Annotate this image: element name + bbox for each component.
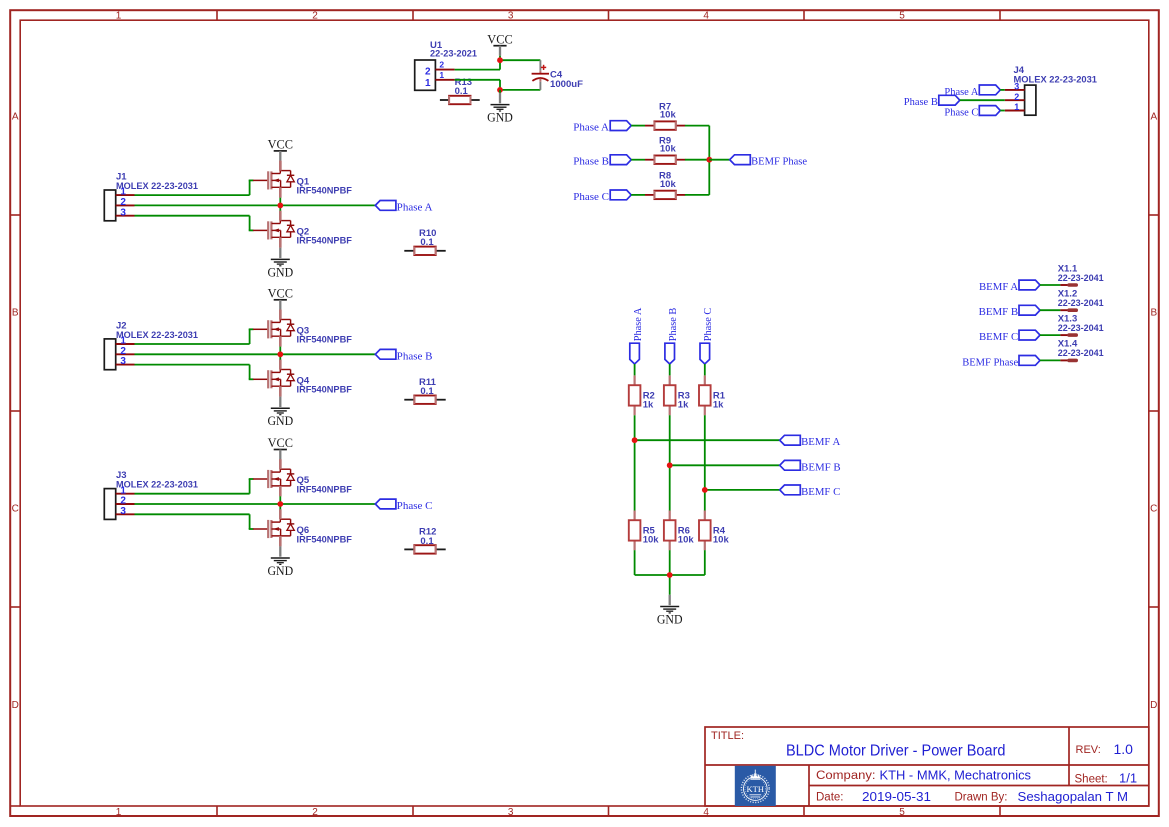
svg-text:REV:: REV:: [1076, 744, 1101, 756]
svg-text:IRF540NPBF: IRF540NPBF: [297, 335, 353, 346]
svg-text:22-23-2041: 22-23-2041: [1058, 273, 1105, 284]
svg-text:Phase C: Phase C: [944, 107, 978, 119]
svg-text:3: 3: [508, 11, 514, 22]
svg-text:IRF540NPBF: IRF540NPBF: [297, 534, 353, 545]
svg-text:BEMF C: BEMF C: [801, 486, 840, 498]
svg-text:VCC: VCC: [268, 436, 293, 450]
svg-text:IRF540NPBF: IRF540NPBF: [297, 484, 353, 495]
svg-text:10k: 10k: [713, 535, 730, 546]
svg-text:IRF540NPBF: IRF540NPBF: [297, 236, 353, 247]
svg-text:3: 3: [508, 807, 514, 818]
svg-text:BLDC Motor Driver - Power Boar: BLDC Motor Driver - Power Board: [786, 743, 1006, 760]
svg-text:10k: 10k: [643, 535, 660, 546]
svg-text:BEMF A: BEMF A: [979, 281, 1018, 293]
svg-text:10k: 10k: [660, 144, 677, 155]
svg-text:MOLEX 22-23-2031: MOLEX 22-23-2031: [116, 181, 199, 192]
svg-text:2: 2: [425, 66, 431, 77]
svg-text:BEMF Phase: BEMF Phase: [751, 156, 807, 168]
svg-text:D: D: [1150, 700, 1157, 711]
svg-text:1k: 1k: [643, 400, 654, 411]
svg-text:1: 1: [425, 78, 431, 89]
svg-text:1: 1: [1014, 102, 1019, 112]
svg-text:Company:: Company:: [816, 770, 876, 782]
svg-text:Phase B: Phase B: [397, 350, 433, 362]
svg-text:Phase A: Phase A: [573, 122, 609, 134]
svg-text:Drawn By:: Drawn By:: [955, 792, 1008, 804]
svg-text:3: 3: [120, 207, 126, 218]
svg-text:BEMF B: BEMF B: [979, 306, 1019, 318]
svg-text:VCC: VCC: [487, 32, 512, 46]
svg-text:B: B: [12, 308, 19, 319]
svg-text:5: 5: [899, 807, 905, 818]
svg-text:B: B: [1150, 308, 1157, 319]
svg-text:22-23-2041: 22-23-2041: [1058, 348, 1105, 359]
svg-text:Phase C: Phase C: [702, 308, 714, 342]
svg-text:D: D: [12, 700, 19, 711]
svg-text:4: 4: [703, 807, 709, 818]
svg-text:1: 1: [116, 11, 122, 22]
svg-text:2: 2: [439, 60, 444, 70]
svg-text:22-23-2041: 22-23-2041: [1058, 323, 1105, 334]
svg-text:IRF540NPBF: IRF540NPBF: [297, 186, 353, 197]
svg-text:4: 4: [703, 11, 709, 22]
svg-text:1k: 1k: [713, 400, 724, 411]
svg-text:BEMF B: BEMF B: [801, 461, 841, 473]
svg-text:22-23-2041: 22-23-2041: [1058, 298, 1105, 309]
svg-text:2: 2: [312, 807, 318, 818]
svg-text:MOLEX 22-23-2031: MOLEX 22-23-2031: [1014, 74, 1098, 85]
svg-text:C: C: [12, 504, 19, 515]
svg-text:GND: GND: [657, 612, 683, 626]
svg-text:22-23-2021: 22-23-2021: [430, 48, 478, 59]
svg-text:1: 1: [116, 807, 122, 818]
svg-text:5: 5: [899, 11, 905, 22]
svg-text:2019-05-31: 2019-05-31: [862, 789, 931, 804]
svg-text:Phase C: Phase C: [573, 191, 609, 203]
svg-text:Seshagopalan T M: Seshagopalan T M: [1018, 789, 1129, 804]
svg-text:1000uF: 1000uF: [550, 79, 583, 90]
svg-text:VCC: VCC: [268, 138, 293, 152]
svg-text:Phase B: Phase B: [667, 308, 679, 342]
svg-text:0.1: 0.1: [420, 237, 434, 248]
svg-text:A: A: [12, 112, 19, 123]
svg-text:1.0: 1.0: [1114, 741, 1134, 757]
svg-text:10k: 10k: [678, 535, 695, 546]
svg-text:3: 3: [1014, 82, 1019, 92]
svg-text:1/1: 1/1: [1119, 771, 1137, 786]
svg-text:Phase C: Phase C: [397, 500, 433, 512]
svg-text:MOLEX 22-23-2031: MOLEX 22-23-2031: [116, 480, 199, 491]
svg-text:Sheet:: Sheet:: [1075, 774, 1108, 786]
svg-text:Phase A: Phase A: [397, 201, 433, 213]
svg-text:GND: GND: [487, 111, 513, 125]
svg-text:KTH: KTH: [747, 784, 764, 794]
svg-text:2: 2: [312, 11, 318, 22]
svg-text:3: 3: [120, 356, 126, 367]
svg-text:GND: GND: [267, 564, 293, 578]
svg-text:TITLE:: TITLE:: [711, 730, 744, 742]
svg-text:BEMF A: BEMF A: [801, 436, 840, 448]
svg-text:VCC: VCC: [268, 286, 293, 300]
svg-text:BEMF C: BEMF C: [979, 331, 1018, 343]
svg-text:0.1: 0.1: [420, 536, 434, 547]
svg-text:BEMF Phase: BEMF Phase: [962, 356, 1018, 368]
svg-text:GND: GND: [267, 265, 293, 279]
svg-text:A: A: [1150, 112, 1157, 123]
svg-text:C: C: [1150, 504, 1157, 515]
svg-text:Phase B: Phase B: [573, 156, 609, 168]
svg-text:1: 1: [439, 70, 444, 80]
svg-text:KTH - MMK, Mechatronics: KTH - MMK, Mechatronics: [880, 768, 1032, 783]
svg-text:3: 3: [120, 506, 126, 517]
svg-text:IRF540NPBF: IRF540NPBF: [297, 385, 353, 396]
svg-text:Phase B: Phase B: [904, 96, 938, 108]
svg-text:2: 2: [1014, 92, 1019, 102]
svg-text:0.1: 0.1: [420, 386, 434, 397]
svg-text:10k: 10k: [660, 110, 677, 121]
svg-text:Date:: Date:: [816, 792, 844, 804]
svg-text:Phase A: Phase A: [632, 308, 644, 342]
svg-text:1k: 1k: [678, 400, 689, 411]
svg-text:MOLEX 22-23-2031: MOLEX 22-23-2031: [116, 330, 199, 341]
svg-text:GND: GND: [267, 414, 293, 428]
svg-text:10k: 10k: [660, 179, 677, 190]
